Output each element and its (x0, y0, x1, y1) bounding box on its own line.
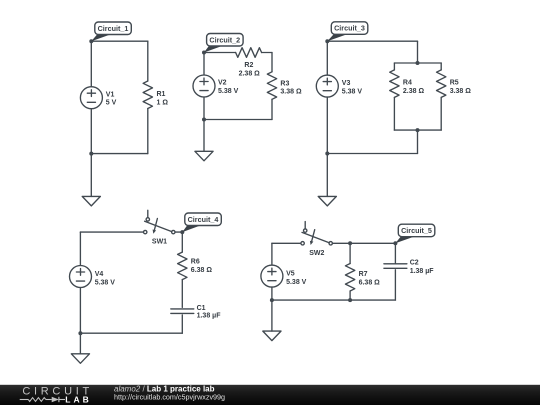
ground circuit 4 (71, 354, 89, 364)
wire right upper circuit 1 (147, 41, 149, 81)
voltage source V2 (193, 75, 215, 97)
svg-text:Circuit_5: Circuit_5 (401, 226, 432, 235)
svg-text:5.38 V: 5.38 V (342, 88, 363, 95)
wire top circuit 3 (327, 40, 417, 42)
svg-text:R7: R7 (359, 271, 368, 278)
svg-text:5.38 V: 5.38 V (95, 279, 116, 286)
resistor R6 (178, 252, 187, 280)
label Circuit_3 (327, 22, 368, 41)
svg-text:http://circuitlab.com/c5pvjrwx: http://circuitlab.com/c5pvjrwxzv99g (114, 393, 225, 402)
svg-text:5 V: 5 V (106, 100, 117, 107)
wire R5 bottom stub (440, 97, 442, 130)
resistor R2 (236, 48, 262, 58)
logo diode cathode bar (58, 397, 60, 402)
wire node down circuit 4 (181, 232, 183, 252)
resistor R4 (390, 70, 399, 98)
svg-text:R4: R4 (403, 79, 412, 86)
svg-text:Circuit_1: Circuit_1 (98, 24, 129, 33)
wire top left circuit 4 (80, 231, 143, 233)
wire switch to node circuit 4 (175, 231, 182, 233)
svg-text:SW2: SW2 (309, 250, 324, 257)
node circuit 2 (202, 51, 206, 55)
node circuit 3 (325, 39, 329, 43)
label Circuit_4 (182, 213, 221, 232)
svg-text:R6: R6 (191, 259, 200, 266)
ground circuit 1 (82, 196, 100, 206)
voltage source V1 (80, 87, 102, 109)
label Circuit_1 (91, 22, 131, 41)
junction circuit 5 R7 bottom (348, 298, 352, 302)
wire R7 top stub circuit 5 (349, 243, 351, 263)
wire left lower circuit 2 (203, 97, 205, 120)
wire R4 bottom stub (393, 97, 395, 130)
svg-text:V1: V1 (106, 91, 115, 98)
svg-text:LAB: LAB (65, 394, 91, 404)
svg-text:1 Ω: 1 Ω (157, 99, 169, 106)
wire bottom circuit 4 (80, 332, 182, 334)
logo schematic wire (20, 397, 65, 402)
label Circuit_2 (204, 34, 243, 53)
wire C1 down circuit 4 (181, 315, 183, 333)
voltage source V4 (70, 266, 92, 288)
wire left upper circuit 3 (326, 41, 328, 75)
capacitor C1 (171, 309, 194, 314)
svg-text:V3: V3 (342, 80, 351, 87)
switch SW2 arrow head (310, 241, 314, 245)
logo resistor (28, 398, 46, 402)
wire R7 bottom stub circuit 5 (349, 291, 351, 300)
resistor R7 (345, 264, 354, 292)
wire left lower circuit 4 (79, 288, 81, 334)
svg-text:1.38 µF: 1.38 µF (410, 268, 435, 275)
wire top left circuit 5 (272, 242, 301, 244)
wire right lower circuit 2 (271, 99, 273, 119)
logo diode triangle (52, 397, 59, 403)
wire top left circuit 2 (204, 52, 236, 54)
svg-text:3.38 Ω: 3.38 Ω (280, 89, 302, 96)
svg-text:3.38 Ω: 3.38 Ω (450, 88, 472, 95)
svg-text:V5: V5 (286, 271, 295, 278)
svg-text:R1: R1 (157, 91, 166, 98)
wire ground stem circuit 2 (203, 120, 205, 152)
junction circuit 5 R7 top (348, 241, 352, 245)
switch SW1 (147, 210, 149, 217)
resistor R1 (143, 81, 152, 109)
wire R5 top stub (440, 63, 442, 70)
svg-text:2.38 Ω: 2.38 Ω (239, 71, 261, 78)
wire left upper circuit 4 (79, 232, 81, 265)
voltage source V3 (316, 75, 338, 97)
junction circuit 3 bottom left (325, 152, 329, 156)
wire left lower circuit 3 (326, 97, 328, 153)
svg-text:6.38 Ω: 6.38 Ω (191, 267, 213, 274)
wire R6 to C1 (181, 280, 183, 308)
svg-text:5.38 V: 5.38 V (286, 279, 307, 286)
svg-text:R2: R2 (244, 62, 253, 69)
svg-text:Circuit_3: Circuit_3 (334, 24, 365, 33)
junction circuit 1 bottom (89, 152, 93, 156)
callout labels (91, 22, 435, 244)
wire ground stem circuit 4 (79, 333, 81, 354)
wire C2 down circuit 5 (394, 270, 396, 300)
switch SW1 arrow head (153, 230, 157, 234)
junction and node dots (78, 39, 419, 335)
resistor R5 (437, 70, 446, 98)
svg-text:R5: R5 (450, 79, 459, 86)
svg-text:Circuit_4: Circuit_4 (188, 215, 219, 224)
wire left upper circuit 2 (203, 53, 205, 76)
wire top circuit 1 (91, 40, 148, 42)
svg-text:5.38 V: 5.38 V (218, 88, 239, 95)
svg-text:C2: C2 (410, 260, 419, 267)
svg-text:2.38 Ω: 2.38 Ω (403, 88, 425, 95)
wire ground stem circuit 3 (326, 154, 328, 197)
wire bottom circuit 1 (91, 153, 148, 155)
voltage source V5 (261, 265, 283, 287)
svg-text:SW1: SW1 (152, 239, 167, 246)
wire bottom circuit 5 (272, 299, 396, 301)
wire left lower circuit 1 (90, 109, 92, 154)
wire ground stem circuit 5 (271, 300, 273, 331)
wire right lower circuit 1 (147, 109, 149, 154)
node circuit 4 (180, 230, 184, 234)
wire right upper circuit 3 (417, 41, 419, 63)
svg-text:C1: C1 (197, 305, 206, 312)
ground circuit 5 (263, 331, 281, 341)
svg-text:R3: R3 (280, 80, 289, 87)
junction circuit 4 bottom left (78, 331, 82, 335)
ground circuit 2 (195, 151, 213, 161)
svg-text:V4: V4 (95, 271, 104, 278)
svg-text:6.38 Ω: 6.38 Ω (359, 280, 381, 287)
svg-text:Circuit_2: Circuit_2 (209, 35, 240, 44)
junction circuit 5 bottom left (270, 298, 274, 302)
wire left upper circuit 5 (271, 243, 273, 265)
footer bar (0, 384, 540, 405)
wire left lower circuit 5 (271, 287, 273, 300)
node circuit 1 (89, 39, 93, 43)
capacitor C2 (384, 264, 407, 269)
junction circuit 3 bottom bar (416, 128, 420, 132)
wire right lower circuit 3 (417, 130, 419, 153)
node circuit 5 (393, 241, 397, 245)
wire left upper circuit 1 (90, 41, 92, 86)
wire bottom circuit 3 (327, 153, 417, 155)
wire ground stem circuit 1 (90, 154, 92, 197)
junction circuit 3 top bar (416, 61, 420, 65)
wire top right circuit 2 (262, 52, 272, 54)
wire R4 top stub (393, 63, 395, 70)
resistor R3 (267, 72, 276, 100)
svg-text:1.38 µF: 1.38 µF (197, 313, 222, 320)
wire switch to node circuit 5 (333, 242, 396, 244)
label Circuit_5 (395, 224, 434, 243)
svg-text:V2: V2 (218, 80, 227, 87)
ground circuit 3 (318, 196, 336, 206)
wire parallel top bar circuit 3 (394, 62, 441, 64)
component text labels (95, 62, 472, 319)
wire right upper circuit 2 (271, 53, 273, 72)
wire bottom circuit 2 (204, 119, 272, 121)
wire parallel bottom bar circuit 3 (394, 129, 441, 131)
junction circuit 2 bottom (202, 118, 206, 122)
switch SW2 (304, 222, 306, 229)
wire node down to C2 (394, 243, 396, 263)
